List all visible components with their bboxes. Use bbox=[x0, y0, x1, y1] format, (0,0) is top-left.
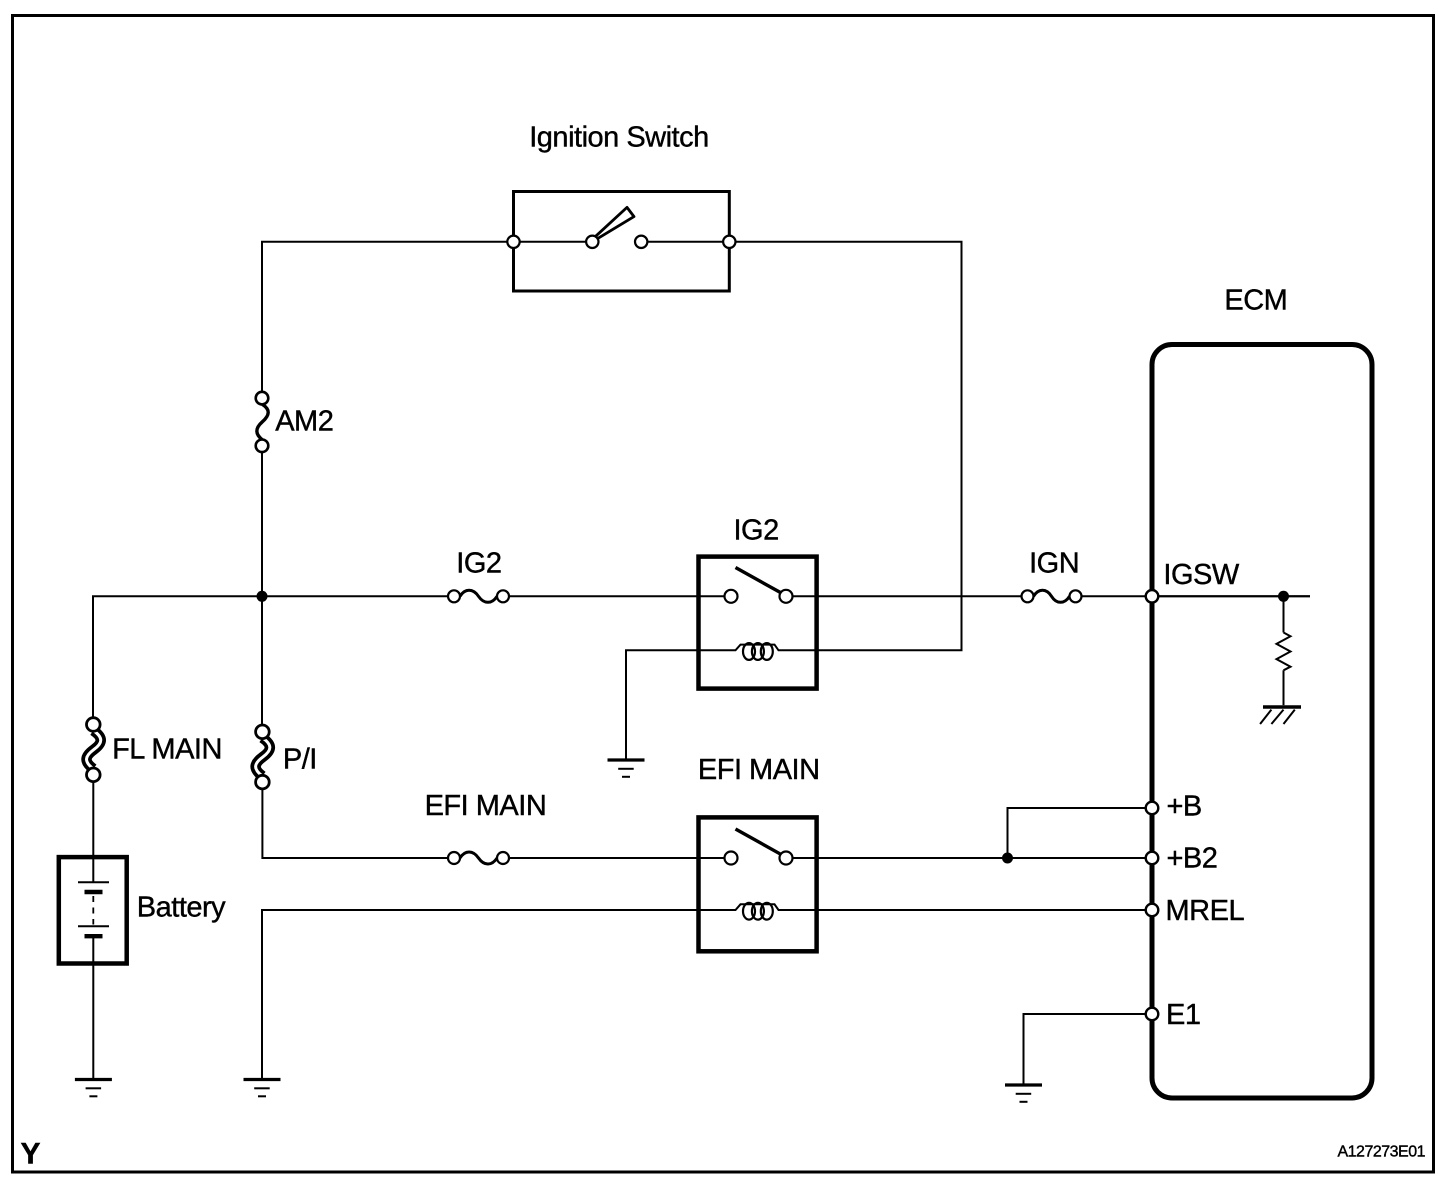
battery box bbox=[59, 857, 127, 963]
svg-text:Y: Y bbox=[21, 1138, 41, 1171]
ignition switch terminal circle right bbox=[723, 236, 735, 248]
relay EFI MAIN coil bbox=[699, 903, 817, 920]
fuse IGN right circle bbox=[1070, 590, 1082, 602]
svg-text:MREL: MREL bbox=[1166, 895, 1245, 927]
svg-text:IG2: IG2 bbox=[734, 514, 779, 546]
node junction dot at AM2 column / IG2 row bbox=[257, 591, 268, 602]
fuse AM2 squiggle bbox=[257, 404, 268, 440]
ignition switch box bbox=[514, 192, 730, 292]
relay IG2 switch arm bbox=[736, 568, 783, 594]
fusible link FL MAIN element bbox=[87, 731, 101, 769]
pin +B2 circle bbox=[1146, 852, 1159, 865]
ground for E1 bbox=[1005, 1085, 1042, 1102]
svg-text:EFI MAIN: EFI MAIN bbox=[698, 754, 820, 786]
svg-text:IGN: IGN bbox=[1029, 547, 1079, 579]
pin IGSW circle bbox=[1146, 590, 1159, 603]
wire: E1 pin left and down to ground bbox=[1024, 1014, 1153, 1085]
svg-text:+B2: +B2 bbox=[1167, 843, 1218, 875]
svg-text:IG2: IG2 bbox=[456, 548, 501, 580]
svg-text:+B: +B bbox=[1167, 791, 1202, 823]
relay IG2 box bbox=[699, 557, 817, 689]
ground for IG2 relay coil bbox=[608, 760, 645, 777]
pin +B circle bbox=[1146, 802, 1159, 815]
wire: IG2 row relay right contact to IGN fuse bbox=[786, 595, 1034, 597]
fusible link P/I bottom circle bbox=[256, 775, 270, 789]
fusible link FL MAIN top circle bbox=[87, 718, 101, 732]
node junction dot at +B branch bbox=[1002, 853, 1013, 864]
fuse IGN left circle bbox=[1022, 590, 1034, 602]
relay IG2 coil bbox=[699, 643, 817, 660]
relay EFI MAIN contact circle left bbox=[725, 852, 738, 865]
ignition switch terminal circle left bbox=[507, 236, 519, 248]
fusible link P/I element bbox=[256, 738, 270, 776]
wire: battery column FL MAIN to battery top plate bbox=[92, 782, 94, 883]
relay IG2 contact circle right bbox=[780, 590, 793, 603]
svg-text:ECM: ECM bbox=[1224, 284, 1287, 316]
relay EFI MAIN switch arm bbox=[736, 829, 782, 855]
wire: IG2 relay coil left lead to ground bbox=[626, 650, 699, 760]
ignition switch contact circle mid-left bbox=[586, 236, 598, 248]
ignition switch contact circle mid-right bbox=[635, 236, 647, 248]
svg-text:AM2: AM2 bbox=[275, 406, 333, 438]
relay EFI MAIN box bbox=[699, 817, 817, 951]
wire: AM2 fuse bottom down to P/I link top bbox=[261, 452, 263, 725]
fuse EFI MAIN wavy element bbox=[460, 852, 497, 864]
svg-text:IGSW: IGSW bbox=[1163, 559, 1239, 591]
wire: +B branch from junction up to +B pin bbox=[1008, 808, 1153, 858]
relay IG2 contact circle left bbox=[725, 590, 738, 603]
ECM box bbox=[1152, 345, 1372, 1099]
fuse IG2 left circle bbox=[448, 590, 460, 602]
battery cell plates bbox=[78, 882, 109, 936]
svg-text:FL MAIN: FL MAIN bbox=[112, 734, 222, 766]
fuse AM2 top circle bbox=[256, 392, 269, 405]
wire: left column top and IG2 row left segment bbox=[93, 596, 460, 717]
svg-text:Ignition Switch: Ignition Switch bbox=[529, 121, 709, 153]
fuse EFI MAIN right circle bbox=[497, 852, 509, 864]
svg-text:E1: E1 bbox=[1166, 999, 1200, 1031]
pin E1 circle bbox=[1146, 1008, 1159, 1021]
fusible link P/I top circle bbox=[256, 725, 270, 739]
svg-text:Battery: Battery bbox=[137, 892, 226, 924]
chassis ground under resistor bbox=[1260, 707, 1301, 724]
fuse IG2 right circle bbox=[497, 590, 509, 602]
svg-text:P/I: P/I bbox=[283, 744, 317, 776]
wire: EFI row fuse to relay left contact bbox=[497, 857, 731, 859]
fuse IGN wavy element bbox=[1034, 590, 1070, 602]
ground for MREL wire bbox=[244, 1080, 281, 1097]
svg-text:A127273E01: A127273E01 bbox=[1337, 1144, 1425, 1161]
ignition switch lever bbox=[596, 207, 634, 238]
wire: IGN fuse to IGSW pin and into ECM bbox=[1070, 595, 1311, 597]
node junction dot on IGSW line bbox=[1278, 591, 1289, 602]
wire: P/I link bottom down and right to EFI MAIN fuse row bbox=[262, 789, 460, 858]
wire: ignition switch right contact across and down to IG2 relay coil right lead bbox=[641, 242, 961, 651]
wire: MREL row from relay coil right lead to MREL pin bbox=[817, 909, 1152, 911]
pin MREL circle bbox=[1146, 904, 1159, 917]
wire: IG2 row fuse to relay left contact bbox=[497, 595, 731, 597]
wire: resistor top lead bbox=[1283, 596, 1285, 632]
wire: AM2 column up and across to ignition switch left contact bbox=[262, 242, 592, 392]
fuse AM2 bottom circle bbox=[256, 440, 269, 453]
relay EFI MAIN contact circle right bbox=[780, 852, 793, 865]
wire: resistor bottom lead bbox=[1283, 670, 1285, 705]
wire: MREL row left segment to turn-down and ground bbox=[262, 910, 699, 1078]
wire: battery bottom plate to ground bbox=[92, 936, 94, 1078]
wire: EFI relay right contact to +B2 pin bbox=[786, 857, 1152, 859]
ground for battery bbox=[75, 1080, 112, 1097]
fusible link FL MAIN bottom circle bbox=[87, 768, 101, 782]
resistor R (IGSW pull-down) bbox=[1277, 633, 1291, 671]
wire: IGSW internal line to pull-down resistor node bbox=[1152, 595, 1310, 597]
svg-text:EFI MAIN: EFI MAIN bbox=[425, 790, 547, 822]
fuse IG2 wavy element bbox=[460, 590, 497, 602]
fuse EFI MAIN left circle bbox=[448, 852, 460, 864]
